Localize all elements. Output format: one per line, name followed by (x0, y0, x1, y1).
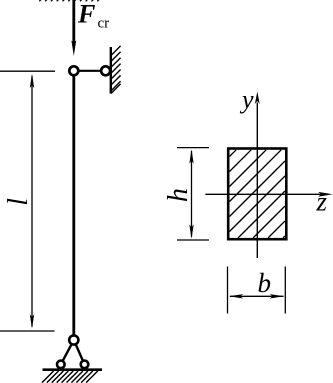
dimension b right arrow (270, 294, 285, 298)
bottom support left circle (57, 361, 65, 369)
bottom support top pin circle (69, 335, 78, 344)
svg-text:F: F (77, 0, 95, 29)
y axis (255, 92, 260, 259)
svg-text:cr: cr (98, 16, 110, 32)
dimension l bottom extension line (0, 330, 55, 332)
dimension h bottom arrow (189, 224, 193, 239)
dimension l top arrow (30, 74, 34, 89)
dimension l line (31, 76, 33, 327)
ground line (43, 368, 103, 371)
dimension b right extension line (284, 267, 286, 314)
top pin circle (69, 66, 78, 75)
column (bar) (72, 71, 75, 340)
svg-text:y: y (239, 85, 254, 114)
wall hatching (111, 46, 121, 94)
dimension h line (191, 151, 193, 237)
cross-section hatching (230, 150, 286, 238)
svg-text:h: h (163, 188, 194, 202)
force F_cr arrow (71, 0, 76, 56)
dimension h top extension line (177, 147, 209, 149)
dimension h top arrow (189, 149, 193, 164)
dimension l top extension line (0, 70, 55, 72)
top roller link bar (74, 70, 106, 72)
dimension b left extension line (227, 267, 229, 314)
dimension h bottom extension line (177, 239, 209, 241)
bottom support right circle (81, 361, 89, 369)
bottom support legs (61, 340, 85, 364)
z axis (205, 192, 332, 197)
svg-text:l: l (3, 198, 34, 206)
dimension b line (230, 295, 284, 297)
ground hatching (42, 371, 98, 383)
svg-text:z: z (316, 187, 328, 217)
cropped upper-support hatching (39, 0, 99, 1)
wall line (110, 47, 112, 94)
dimension b left arrow (229, 294, 244, 298)
svg-text:b: b (258, 268, 272, 298)
cross-section rectangle (228, 149, 286, 240)
wall pin circle (101, 66, 110, 75)
dimension l bottom arrow (30, 314, 34, 329)
